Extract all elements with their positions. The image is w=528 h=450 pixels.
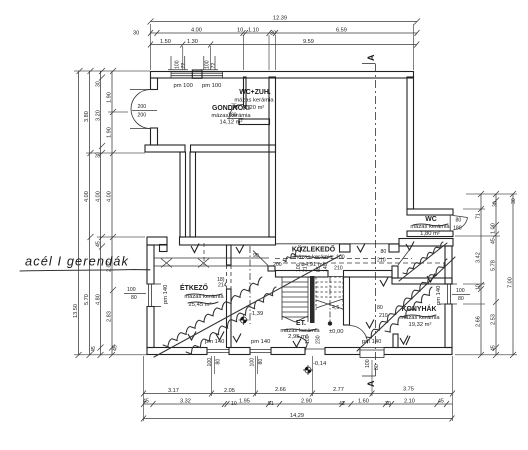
svg-text:45: 45 bbox=[113, 345, 119, 351]
door konyha arc bbox=[350, 326, 368, 344]
svg-text:10: 10 bbox=[231, 401, 237, 407]
chain 71/3.42/10/2.66 bbox=[478, 191, 484, 358]
svg-text:4.00: 4.00 bbox=[96, 191, 102, 202]
room ETKEZO bbox=[180, 283, 224, 308]
svg-text:14,12 m²: 14,12 m² bbox=[220, 120, 243, 126]
svg-text:A: A bbox=[366, 380, 376, 387]
svg-text:80: 80 bbox=[381, 249, 387, 255]
svg-text:-1,39: -1,39 bbox=[250, 311, 263, 317]
window main bottom bay bbox=[360, 348, 384, 358]
svg-text:19,32 m²: 19,32 m² bbox=[409, 322, 432, 328]
dim row 30/4.00/10/1.10/30/6.59 bbox=[148, 30, 420, 36]
window top wing 1 bbox=[171, 72, 223, 79]
stairs break lines bbox=[316, 299, 343, 309]
svg-text:2.83: 2.83 bbox=[107, 311, 113, 322]
strikethrough konyha bbox=[404, 315, 436, 317]
svg-text:1.00: 1.00 bbox=[491, 223, 497, 234]
handwriting diagonal etkezo bbox=[154, 255, 341, 357]
svg-text:3.17: 3.17 bbox=[168, 388, 179, 394]
wall etkezo right solid bbox=[227, 245, 232, 265]
wall main top open stretch line bbox=[276, 243, 400, 245]
DIMS-BOTTOM bbox=[141, 356, 455, 422]
chain 13.50 bbox=[76, 68, 83, 358]
svg-text:100: 100 bbox=[205, 60, 211, 69]
level -1,39 bbox=[239, 311, 264, 325]
svg-text:72: 72 bbox=[211, 63, 217, 69]
svg-text:100: 100 bbox=[296, 263, 302, 272]
svg-text:4.80: 4.80 bbox=[96, 294, 102, 305]
wall main right upper bbox=[445, 246, 452, 284]
wall pantry left bbox=[392, 266, 398, 278]
door WC arc bbox=[450, 215, 467, 231]
svg-text:2.77: 2.77 bbox=[333, 387, 344, 393]
dim line 12.39 bbox=[148, 19, 421, 25]
svg-text:30: 30 bbox=[493, 201, 499, 207]
wall WC top bbox=[407, 209, 453, 215]
svg-text:KÖZLEKEDŐ: KÖZLEKEDŐ bbox=[292, 245, 336, 254]
wall partition GONDNOKI/WC+ZUH bbox=[244, 77, 247, 106]
stairs left flight treads bbox=[282, 277, 308, 322]
svg-text:100: 100 bbox=[127, 287, 136, 293]
dim row 1.50/1.30/9.59 bbox=[148, 42, 419, 48]
wall etkezo right dashed opening bbox=[227, 265, 232, 289]
svg-text:180: 180 bbox=[453, 226, 462, 232]
beam lines etkezo bbox=[154, 258, 269, 268]
svg-text:9.59: 9.59 bbox=[303, 39, 314, 45]
svg-text:4.00: 4.00 bbox=[191, 28, 202, 34]
svg-text:42: 42 bbox=[339, 401, 345, 407]
svg-text:acél I gerendák: acél I gerendák bbox=[25, 254, 129, 269]
chain 7.00 bbox=[510, 191, 516, 358]
strikethrough kozlekedo bbox=[292, 256, 333, 258]
wall main left upper bbox=[147, 245, 154, 284]
svg-text:45: 45 bbox=[491, 238, 497, 244]
handwriting diagonal pantry bbox=[399, 242, 447, 281]
chain 3.80/4.00/5.70 bbox=[87, 68, 94, 358]
svg-text:10: 10 bbox=[237, 28, 243, 34]
dim row 3.17/2.05/2.66/2.77/3.75 bbox=[141, 391, 455, 397]
svg-text:100: 100 bbox=[175, 60, 181, 69]
svg-text:3.20: 3.20 bbox=[96, 110, 102, 121]
svg-text:pm 140: pm 140 bbox=[163, 285, 169, 304]
stairs stringer bbox=[310, 276, 315, 323]
svg-text:ET.: ET. bbox=[296, 320, 306, 327]
room KOZLEKEDO bbox=[292, 245, 336, 269]
extension lines right bbox=[455, 194, 517, 355]
svg-text:4.00: 4.00 bbox=[84, 191, 90, 202]
svg-text:pm 140: pm 140 bbox=[436, 286, 442, 305]
wall main top west bbox=[147, 237, 167, 245]
check marks bbox=[188, 242, 435, 348]
svg-text:5.78: 5.78 bbox=[491, 260, 497, 271]
svg-text:30: 30 bbox=[385, 401, 391, 407]
svg-text:210: 210 bbox=[377, 258, 386, 264]
svg-text:80: 80 bbox=[458, 296, 464, 302]
svg-text:1.50: 1.50 bbox=[160, 39, 171, 45]
svg-text:45: 45 bbox=[91, 346, 97, 352]
svg-text:190: 190 bbox=[228, 113, 237, 119]
svg-text:72: 72 bbox=[181, 63, 187, 69]
dashed vline etkezo bbox=[203, 243, 205, 265]
strikethrough wc bbox=[413, 224, 448, 226]
chain 30/1.00/45/5.78/2.53/45 bbox=[493, 191, 499, 358]
svg-text:21: 21 bbox=[303, 266, 309, 272]
window main bottom 1 bbox=[207, 350, 229, 353]
svg-text:3.80: 3.80 bbox=[84, 111, 90, 122]
wall wing bottom bbox=[145, 145, 185, 152]
svg-text:100: 100 bbox=[456, 288, 465, 294]
svg-text:200: 200 bbox=[138, 104, 147, 110]
svg-text:A: A bbox=[366, 54, 376, 61]
wall konyha left bbox=[344, 277, 350, 325]
svg-text:90: 90 bbox=[253, 253, 259, 259]
window main bottom 2 bbox=[250, 350, 271, 353]
wall main bottom segments bbox=[147, 348, 207, 355]
svg-text:210: 210 bbox=[379, 313, 388, 319]
svg-text:80: 80 bbox=[216, 359, 222, 365]
strikethrough etkezo bbox=[186, 294, 222, 304]
svg-text:100: 100 bbox=[207, 358, 213, 367]
window main left niche bbox=[147, 284, 161, 307]
svg-text:2,20 m²: 2,20 m² bbox=[245, 105, 265, 111]
svg-text:1,80 m²: 1,80 m² bbox=[420, 231, 440, 237]
wall WC bottom bbox=[407, 231, 453, 237]
stairs right flight dashed treads bbox=[316, 277, 343, 310]
level -0,14 bbox=[303, 361, 327, 375]
svg-text:pm 140: pm 140 bbox=[251, 339, 270, 345]
door kozlekedo west leaf bbox=[253, 251, 268, 266]
svg-text:ÉTKEZŐ: ÉTKEZŐ bbox=[180, 283, 209, 292]
wall main right lower bbox=[445, 304, 452, 348]
wall wing right / corridor right bbox=[269, 77, 276, 237]
chain 1.90/1.90/4.00/2.02/2.83/45 bbox=[109, 68, 116, 358]
chain 30/3.20/30/4.00/45/4.80/45 bbox=[98, 68, 106, 358]
svg-text:71: 71 bbox=[476, 213, 482, 219]
svg-text:214: 214 bbox=[218, 283, 227, 289]
wall main top east bbox=[399, 239, 453, 247]
svg-text:3.75: 3.75 bbox=[403, 387, 414, 393]
svg-text:2.05: 2.05 bbox=[224, 388, 235, 394]
room ET bbox=[280, 320, 320, 340]
svg-text:2.90: 2.90 bbox=[301, 399, 312, 405]
svg-text:10: 10 bbox=[476, 284, 482, 290]
door WC+ZUH arc bbox=[227, 105, 244, 119]
svg-text:45: 45 bbox=[438, 399, 444, 405]
svg-text:80: 80 bbox=[131, 295, 137, 301]
svg-text:1.90: 1.90 bbox=[107, 92, 113, 103]
svg-text:±0,00: ±0,00 bbox=[329, 329, 343, 335]
extension lines left bbox=[74, 71, 150, 355]
svg-text:1.10: 1.10 bbox=[248, 28, 259, 34]
svg-text:30: 30 bbox=[96, 81, 102, 87]
svg-text:30: 30 bbox=[511, 198, 517, 204]
pillar kozlekedo 1 bbox=[340, 244, 351, 252]
svg-text:100: 100 bbox=[305, 335, 311, 344]
svg-text:200: 200 bbox=[273, 262, 282, 268]
wall courtyard right bbox=[407, 77, 414, 209]
svg-text:4,5: 4,5 bbox=[332, 305, 339, 311]
svg-text:2.66: 2.66 bbox=[275, 387, 286, 393]
dim row 45/3.32/10/1.95/51/2.90/42/1.60/30/2.10/45 bbox=[141, 401, 453, 407]
svg-text:2.10: 2.10 bbox=[404, 399, 415, 405]
svg-text:4.00: 4.00 bbox=[107, 191, 113, 202]
svg-text:5.70: 5.70 bbox=[84, 294, 90, 305]
svg-text:7.00: 7.00 bbox=[508, 277, 514, 288]
svg-text:pm 140: pm 140 bbox=[205, 339, 224, 345]
svg-text:1.30: 1.30 bbox=[187, 39, 198, 45]
window main right niche bbox=[439, 284, 457, 304]
svg-text:100: 100 bbox=[250, 358, 256, 367]
room WC+ZUH bbox=[234, 89, 274, 111]
svg-text:45: 45 bbox=[96, 241, 102, 247]
DIMS-RIGHT bbox=[455, 191, 517, 358]
svg-text:1.90: 1.90 bbox=[107, 127, 113, 138]
room GONDNOKI bbox=[211, 105, 251, 126]
svg-text:30: 30 bbox=[133, 31, 139, 37]
svg-text:45: 45 bbox=[491, 345, 497, 351]
svg-text:210: 210 bbox=[334, 266, 343, 272]
extension lines bottom bbox=[144, 356, 453, 421]
DIMS-LEFT bbox=[20, 68, 150, 358]
svg-text:6.59: 6.59 bbox=[336, 28, 347, 34]
wall corridor left bbox=[180, 152, 186, 237]
stairs up line bbox=[329, 277, 331, 322]
svg-text:51: 51 bbox=[268, 401, 274, 407]
door main bottom threshold bbox=[305, 348, 325, 350]
wall pantry bottom bbox=[392, 278, 452, 284]
handwriting acel I gerendak bbox=[20, 254, 150, 272]
room WC bbox=[410, 216, 450, 237]
svg-text:WC+ZUH.: WC+ZUH. bbox=[239, 89, 271, 96]
svg-text:2.53: 2.53 bbox=[491, 314, 497, 325]
pilaster etkezo door bbox=[160, 245, 168, 252]
svg-text:WC: WC bbox=[425, 216, 437, 223]
svg-text:200: 200 bbox=[138, 113, 147, 119]
svg-text:25,45 m²: 25,45 m² bbox=[189, 302, 212, 308]
pillar kozlekedo 2 bbox=[389, 244, 399, 252]
svg-text:2.66: 2.66 bbox=[476, 316, 482, 327]
wall wing left lower bbox=[151, 128, 158, 145]
window mullion box bbox=[192, 70, 202, 78]
wall wing top bbox=[151, 72, 414, 79]
svg-text:80: 80 bbox=[374, 364, 380, 370]
svg-text:100: 100 bbox=[365, 359, 371, 368]
door pantry leaf bbox=[398, 249, 410, 265]
wall stairhall top bbox=[276, 271, 329, 278]
wall stub konyha bottom bbox=[393, 334, 398, 348]
handwriting squiggle kozlekedo bbox=[283, 247, 302, 262]
svg-text:3.42: 3.42 bbox=[476, 252, 482, 263]
svg-text:13.50: 13.50 bbox=[73, 304, 79, 318]
svg-text:3.32: 3.32 bbox=[180, 399, 191, 405]
svg-text:mázas kerámia: mázas kerámia bbox=[234, 98, 274, 104]
room KONYHAK bbox=[400, 304, 440, 328]
handwriting diagonal konyha bbox=[357, 257, 455, 351]
svg-text:pm 100: pm 100 bbox=[202, 83, 221, 89]
svg-text:80: 80 bbox=[456, 218, 462, 224]
svg-text:-0,14: -0,14 bbox=[313, 361, 327, 367]
svg-text:80: 80 bbox=[258, 359, 264, 365]
WALLS bbox=[130, 54, 468, 387]
dim extension lines top bbox=[151, 24, 414, 70]
svg-text:14,29: 14,29 bbox=[290, 413, 304, 419]
svg-text:75: 75 bbox=[231, 104, 237, 110]
svg-text:1.60: 1.60 bbox=[358, 399, 369, 405]
svg-text:pm 100: pm 100 bbox=[174, 83, 193, 89]
wall wing left upper bbox=[151, 78, 158, 90]
svg-text:80: 80 bbox=[377, 305, 383, 311]
section line A dash-dot bbox=[362, 64, 376, 377]
svg-text:45: 45 bbox=[143, 399, 149, 405]
wall WC+ZUH bottom bbox=[239, 119, 270, 125]
svg-text:1.95: 1.95 bbox=[239, 399, 250, 405]
svg-text:12.39: 12.39 bbox=[273, 16, 287, 22]
wall main left lower bbox=[147, 307, 154, 348]
door GONDNOKI double arcs bbox=[130, 90, 151, 129]
DIMS-TOP bbox=[133, 16, 420, 71]
beam dashed kozlekedo bbox=[275, 259, 445, 264]
dim row 14.29 bbox=[141, 416, 455, 422]
strikethrough et bbox=[284, 329, 317, 331]
svg-text:230: 230 bbox=[316, 335, 322, 344]
section line B dash-dot bbox=[249, 246, 251, 324]
